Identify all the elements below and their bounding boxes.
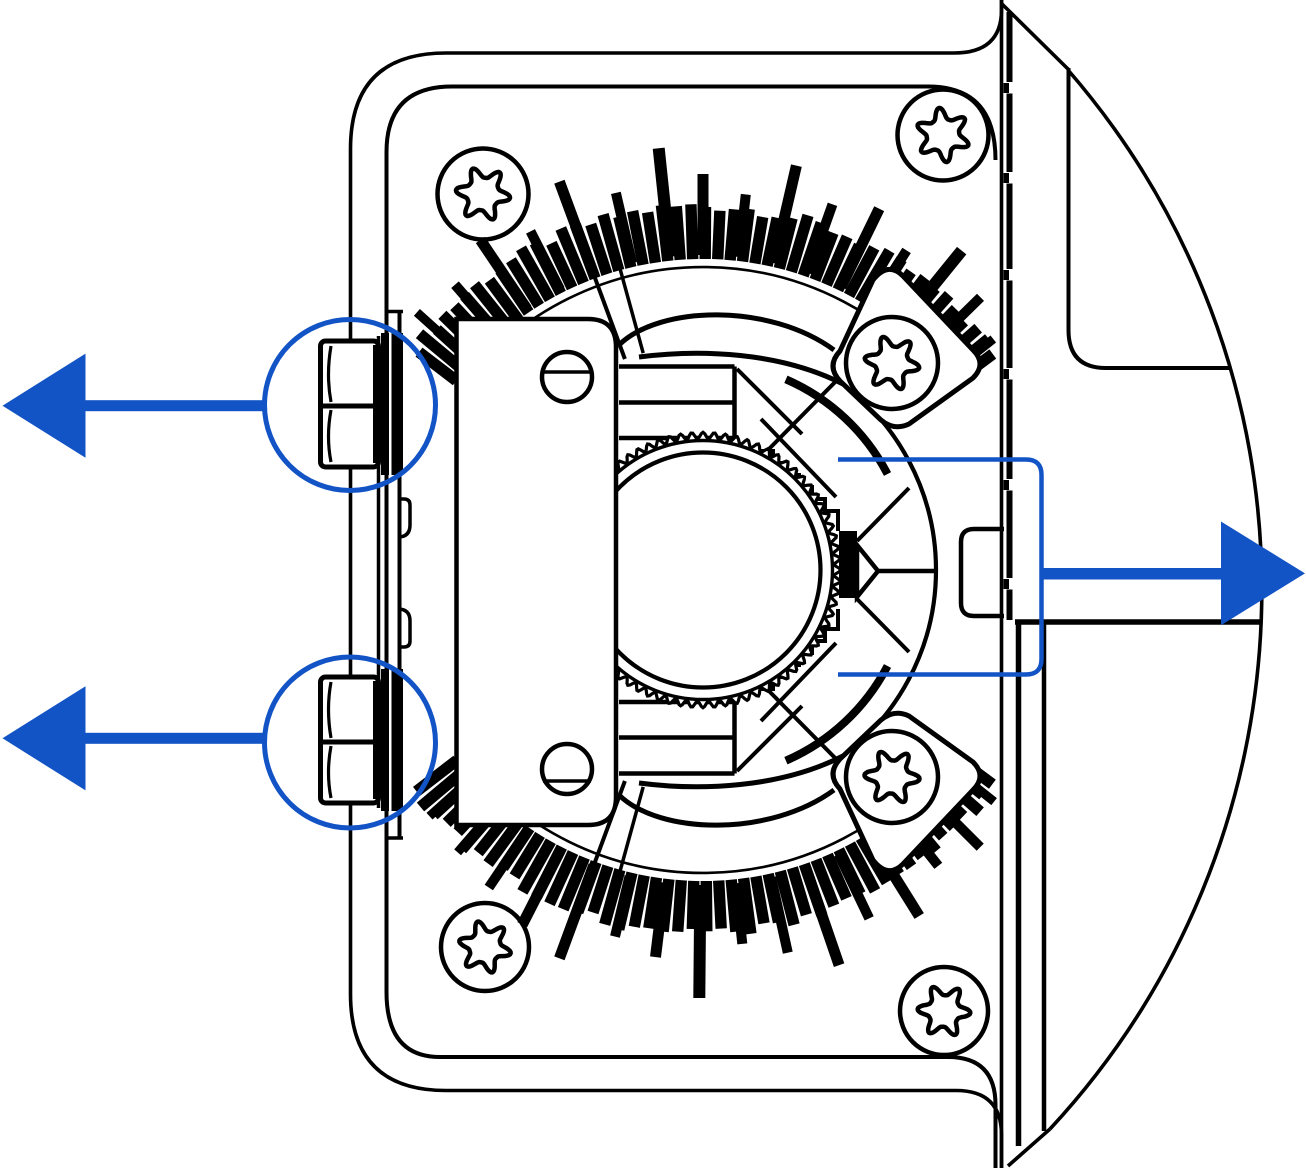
washer bars top bolt — [381, 333, 389, 475]
pad screw bottom-right — [846, 731, 938, 823]
bracket plate — [457, 319, 617, 825]
hex bolt bottom — [321, 677, 379, 803]
top slant — [1002, 4, 1069, 70]
section dashes — [1004, 82, 1015, 590]
highlight circle bottom bolt — [265, 657, 436, 828]
bracket hole top — [542, 352, 592, 402]
washer column — [379, 312, 404, 839]
spoke lattice — [737, 369, 909, 771]
cone dark tip — [839, 531, 857, 598]
highlight circle top bolt — [265, 320, 436, 491]
screw bottom-left — [441, 903, 529, 991]
right plate vertical L2 (sectioned) — [1007, 12, 1013, 620]
right plate vertical L4 — [1042, 622, 1047, 1131]
side tab — [961, 529, 1004, 616]
right plate vertical L3 — [1016, 621, 1022, 1146]
bottom slant — [1008, 1129, 1050, 1166]
screw bottom-right — [900, 967, 988, 1055]
arrow left top — [3, 354, 266, 458]
knurled knob — [565, 432, 840, 707]
screw top-left — [438, 149, 529, 240]
horseshoe thick arc bottom — [786, 666, 888, 761]
pad bottom-right — [833, 713, 980, 870]
horseshoe inner thin arc — [843, 384, 936, 756]
wedge separator top — [587, 249, 643, 359]
callout bracket — [838, 460, 1042, 675]
brush bristle spikes — [417, 148, 994, 998]
pad top-right — [833, 269, 980, 426]
clamp arm bottom — [619, 756, 843, 825]
right plate vertical L1 — [1000, 0, 1004, 1168]
brush ring teeth band — [417, 204, 993, 933]
ring inner boundary arc bottom — [469, 757, 942, 873]
clamp arm top — [619, 315, 843, 384]
clip tab upper — [398, 499, 410, 537]
housing outer shell — [351, 0, 1002, 1168]
stepped cone top — [760, 451, 838, 531]
hex bolt top — [321, 341, 379, 467]
arrow left bottom — [3, 686, 266, 790]
lamination bars bottom — [619, 702, 735, 774]
slot lower edge — [1015, 619, 1262, 625]
lamination bars top — [619, 367, 735, 439]
cover big arc — [1050, 70, 1262, 1129]
bracket hole bottom — [542, 744, 592, 794]
wedge separator bottom — [587, 781, 643, 891]
screw top-right — [898, 90, 989, 181]
cover inner edge — [1069, 68, 1232, 368]
cone apex triangle — [857, 545, 878, 597]
horseshoe thick arc top — [786, 379, 888, 474]
washer bars bottom bolt — [381, 669, 389, 811]
stepped cone bottom — [760, 609, 838, 689]
cone center line — [878, 569, 937, 574]
arrow right — [1042, 522, 1306, 626]
pad screw top-right — [846, 317, 938, 409]
clip tab lower — [398, 609, 410, 647]
ring inner boundary arc top — [469, 267, 942, 383]
